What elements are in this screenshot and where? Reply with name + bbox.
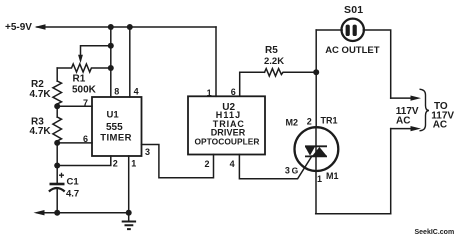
svg-text:G: G xyxy=(292,165,299,175)
triac symbol top bar xyxy=(305,145,327,147)
triac TR1 circle xyxy=(295,127,339,171)
resistor R3 xyxy=(53,117,62,141)
wire outlet-left vertical to triac top xyxy=(315,30,317,127)
resistor R2 xyxy=(53,81,62,104)
wire U2 pin 6 to R5 xyxy=(240,72,265,96)
svg-text:3: 3 xyxy=(285,165,290,175)
wire triac M1 down xyxy=(315,171,317,214)
svg-text:R5: R5 xyxy=(265,45,278,56)
wire R3 to C1 xyxy=(56,141,58,183)
capacitor C1 xyxy=(49,184,65,213)
svg-text:4.7: 4.7 xyxy=(66,188,79,199)
wire triac vertical axis xyxy=(315,127,317,171)
wire pin 7 xyxy=(57,105,92,107)
wire U1 pin 3 to U2 pin 2 xyxy=(142,145,214,178)
wire left column top (R1 to R2) xyxy=(56,68,58,81)
svg-text:AC: AC xyxy=(433,120,447,131)
svg-text:TIMER: TIMER xyxy=(100,132,132,143)
svg-text:6: 6 xyxy=(231,87,236,97)
svg-text:C1: C1 xyxy=(67,177,80,188)
svg-text:4: 4 xyxy=(230,159,235,169)
node wiper tap xyxy=(108,43,114,49)
IC U2 box xyxy=(188,96,265,154)
node pin7 junction xyxy=(54,103,60,109)
ground xyxy=(122,213,136,229)
label TO 117V AC xyxy=(431,101,454,131)
label 117V AC xyxy=(396,106,419,126)
wire R2 to R3 xyxy=(56,104,58,117)
svg-text:1: 1 xyxy=(131,158,136,168)
node R1 right terminal xyxy=(108,65,114,71)
svg-text:7: 7 xyxy=(83,98,88,108)
svg-text:4.7K: 4.7K xyxy=(30,89,52,100)
wire bottom left with arrow xyxy=(34,210,129,215)
triac symbol right triangle xyxy=(312,147,326,156)
wire +5-9V top rail xyxy=(35,24,217,29)
svg-text:SeekIC.com: SeekIC.com xyxy=(415,229,455,236)
wire outlet right to output branch xyxy=(363,30,390,98)
IC U1 box xyxy=(92,97,142,156)
node ground junction xyxy=(126,210,132,216)
wire outlet left lead xyxy=(316,29,342,31)
svg-text:6: 6 xyxy=(83,134,88,144)
wire rail down to U2 pin 1 xyxy=(215,27,217,96)
svg-text:S01: S01 xyxy=(344,4,363,16)
svg-text:1: 1 xyxy=(317,174,322,184)
svg-text:2: 2 xyxy=(307,117,312,127)
svg-text:AC: AC xyxy=(396,116,410,127)
AC outlet S01 xyxy=(342,19,364,41)
wire rail down to U1 pin 8 xyxy=(110,27,112,97)
triac symbol left triangle xyxy=(305,147,315,156)
svg-text:TR1: TR1 xyxy=(321,116,338,126)
svg-text:R1: R1 xyxy=(73,73,86,84)
wire U2 pin 4 to gate xyxy=(239,155,312,179)
node rail / pin4 branch xyxy=(127,24,133,30)
svg-text:4.7K: 4.7K xyxy=(30,126,52,137)
svg-text:3: 3 xyxy=(145,147,150,157)
svg-text:500K: 500K xyxy=(72,84,97,95)
node C1 bottom xyxy=(54,210,60,216)
wire wiper branch to R1 arrow xyxy=(78,46,111,64)
wire U1 pin 2 to C1 top xyxy=(57,156,111,166)
node rail / pin8 branch xyxy=(108,24,114,30)
output terminal lower with arrow xyxy=(391,126,421,131)
svg-text:U1: U1 xyxy=(107,110,120,121)
svg-text:M2: M2 xyxy=(286,118,299,128)
triac symbol bottom bar xyxy=(305,155,327,157)
svg-text:8: 8 xyxy=(114,86,119,96)
wire pin 6 xyxy=(57,142,92,144)
svg-text:M1: M1 xyxy=(326,171,339,181)
node C1 top junction xyxy=(54,163,60,169)
wire triac M1 to output bottom xyxy=(316,213,391,215)
svg-text:1: 1 xyxy=(207,88,212,98)
svg-text:2: 2 xyxy=(205,159,210,169)
svg-text:4: 4 xyxy=(134,86,139,96)
wire rail down to U1 pin 4 xyxy=(129,27,131,97)
node R5 / outlet branch xyxy=(313,69,319,75)
resistor R5 xyxy=(265,69,317,76)
output terminal upper with arrow xyxy=(391,96,421,101)
wire lower output down to bottom xyxy=(390,129,392,214)
svg-text:+5-9V: +5-9V xyxy=(5,22,32,33)
svg-text:AC OUTLET: AC OUTLET xyxy=(325,45,380,56)
capacitor C1 plus sign xyxy=(59,173,64,178)
svg-text:OPTOCOUPLER: OPTOCOUPLER xyxy=(194,136,259,146)
node pin6 junction xyxy=(54,140,60,146)
svg-text:2: 2 xyxy=(113,158,118,168)
wire U1 pin 1 down xyxy=(128,156,130,213)
svg-text:2.2K: 2.2K xyxy=(264,56,284,67)
curly brace xyxy=(420,89,430,131)
potentiometer R1 xyxy=(57,64,111,72)
